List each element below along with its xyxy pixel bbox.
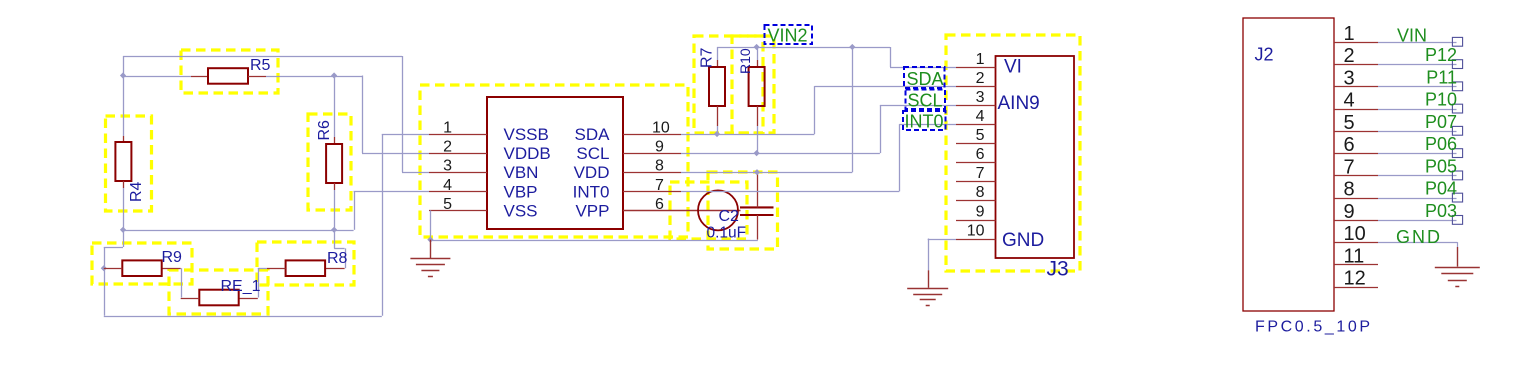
connector J2 body <box>1243 18 1334 311</box>
J2 pin 6 wire <box>1378 153 1457 155</box>
wire W1 into IC pin 3 <box>402 172 429 174</box>
wire W2 right segment <box>266 76 362 78</box>
J2 pin 3 port square <box>1452 82 1462 91</box>
svg-text:VSSB: VSSB <box>504 125 549 144</box>
J2 pin 10 stub <box>1334 242 1378 244</box>
resistor R4 top lead <box>123 136 125 142</box>
svg-text:0.1uF: 0.1uF <box>707 225 747 242</box>
J2 pin 5 stub <box>1334 131 1378 133</box>
junction R10 / SCL <box>753 150 759 156</box>
J3 pin 10 stub <box>956 239 996 241</box>
svg-text:R5: R5 <box>250 57 271 74</box>
svg-text:10: 10 <box>967 222 985 239</box>
resistor R10 top lead <box>757 60 759 67</box>
net label SCL box <box>906 90 946 110</box>
svg-text:6: 6 <box>1344 134 1355 156</box>
svg-text:SCL: SCL <box>908 91 943 111</box>
wire INT0 from IC pin 7 <box>681 191 899 193</box>
wire J2 ground drop <box>1457 242 1459 247</box>
capacitor C2 bottom plate <box>740 214 774 216</box>
junction R4 / W2 <box>120 72 126 78</box>
junction ground rail <box>427 236 433 242</box>
J2 pin 1 port square <box>1452 37 1462 46</box>
svg-text:P05: P05 <box>1425 156 1457 176</box>
wire R8-left stub <box>258 268 267 270</box>
wire ground rail to C2 <box>430 240 757 242</box>
net label VIN2 box <box>765 25 813 44</box>
svg-text:R10: R10 <box>737 48 753 74</box>
room box around J3 <box>946 35 1080 271</box>
junction R6 / H230 <box>331 227 337 233</box>
IC pin 9 stub <box>623 153 681 155</box>
wire VDD from IC pin 8 <box>681 172 852 174</box>
wire R6 bottom vertical <box>334 190 336 248</box>
room box around C2 circle <box>670 182 747 239</box>
svg-text:9: 9 <box>1344 201 1355 223</box>
IC pin 6 stub (through C2 circle) <box>623 210 741 212</box>
svg-text:R4: R4 <box>128 181 145 202</box>
svg-text:P06: P06 <box>1425 134 1457 154</box>
svg-text:GND: GND <box>1396 227 1442 247</box>
wire left vertical down to bottom rail <box>104 247 106 316</box>
capacitor C2 top lead <box>757 172 759 207</box>
J2 pin 1 wire <box>1378 42 1457 44</box>
svg-text:2: 2 <box>1344 45 1355 67</box>
resistor R9 right lead <box>162 268 181 270</box>
IC pin 10 stub <box>623 134 681 136</box>
wire W2 vertical down to pin2 row <box>362 76 364 154</box>
wire R6-R8 jog vertical <box>345 248 347 268</box>
wire VIN2 into J3 pin 1 <box>890 67 956 69</box>
wire net W2 (VDDB) left segment <box>123 76 191 78</box>
svg-text:P04: P04 <box>1425 179 1457 199</box>
resistor R5 right lead <box>248 76 266 78</box>
svg-text:SDA: SDA <box>575 125 611 144</box>
J2 pin 1 stub <box>1334 42 1378 44</box>
svg-text:5: 5 <box>443 196 452 213</box>
wire SDA riser <box>814 86 816 134</box>
IC pin 7 stub <box>623 191 681 193</box>
svg-text:2: 2 <box>443 139 452 156</box>
svg-text:9: 9 <box>655 139 664 156</box>
resistor R6 body <box>326 144 342 183</box>
resistor RE_1 right lead <box>239 298 258 300</box>
svg-text:1: 1 <box>976 51 985 68</box>
svg-text:1: 1 <box>443 120 452 137</box>
svg-text:VBP: VBP <box>504 182 538 201</box>
room box around R9 <box>92 243 192 284</box>
room box around R7 <box>694 36 763 133</box>
svg-text:1: 1 <box>1344 23 1355 45</box>
wire R9 to RE_1 vertical <box>181 268 183 297</box>
resistor R4 bottom lead <box>123 181 125 188</box>
J2 pin 3 stub <box>1334 86 1378 88</box>
svg-text:7: 7 <box>655 177 664 194</box>
ground symbol at J2 <box>1457 247 1459 267</box>
room box around IC <box>420 85 688 237</box>
resistor R5 left lead <box>191 76 208 78</box>
J2 pin 12 stub <box>1334 287 1378 289</box>
J3 pin 2 stub <box>956 86 996 88</box>
wire VBP vertical <box>354 191 356 230</box>
room box around R10 <box>732 36 774 133</box>
wire VBP into IC pin 4 <box>354 191 429 193</box>
wire R6-R8 jog horizontal <box>334 248 345 250</box>
svg-text:8: 8 <box>655 158 664 175</box>
ground symbol at IC <box>430 240 432 259</box>
wire J3 pin 10 to ground <box>928 239 956 241</box>
svg-text:R9: R9 <box>162 249 183 266</box>
svg-text:P10: P10 <box>1425 90 1457 110</box>
svg-text:VBN: VBN <box>504 163 539 182</box>
svg-text:4: 4 <box>443 177 452 194</box>
wire R10 top <box>757 47 759 60</box>
svg-text:R7: R7 <box>699 47 716 68</box>
wire VSSB long vertical <box>382 134 384 316</box>
resistor R7 top lead <box>717 60 719 67</box>
wire R7 bottom <box>717 126 719 134</box>
J2 pin 4 port square <box>1452 104 1462 113</box>
svg-text:SCL: SCL <box>576 144 609 163</box>
IC pin 5 stub <box>429 210 487 212</box>
wire VSSB into IC pin 1 <box>382 134 429 136</box>
J3 pin 6 stub <box>956 162 996 164</box>
wire J3 ground drop <box>928 239 930 271</box>
J2 pin 5 port square <box>1452 126 1462 135</box>
J3 pin 4 stub <box>956 124 996 126</box>
capacitor C2 top plate <box>740 206 774 208</box>
svg-text:3: 3 <box>443 158 452 175</box>
svg-text:VPP: VPP <box>575 201 609 220</box>
svg-text:5: 5 <box>976 127 985 144</box>
svg-text:6: 6 <box>655 196 664 213</box>
wire R4 top vertical <box>123 56 125 136</box>
wire INT0 to J3 pin 4 <box>899 124 956 126</box>
svg-text:VDDB: VDDB <box>504 144 551 163</box>
resistor R10 bottom lead <box>757 106 759 126</box>
wire VDD riser to VIN2 <box>852 47 854 172</box>
IC pin 1 stub <box>429 134 487 136</box>
wire net W1 R4-top to pin3 horizontal <box>123 56 402 58</box>
J2 pin 9 wire <box>1378 220 1457 222</box>
wire SCL riser <box>880 105 882 153</box>
J2 pin 8 wire <box>1378 198 1457 200</box>
net label INT0 box <box>903 111 946 130</box>
room box around RE_1 <box>169 270 268 314</box>
J2 pin 10 wire <box>1378 242 1457 244</box>
svg-text:8: 8 <box>976 184 985 201</box>
junction R7 / SDA <box>714 131 720 137</box>
svg-text:10: 10 <box>652 120 670 137</box>
room box around R6 <box>308 114 351 210</box>
J2 pin 7 wire <box>1378 175 1457 177</box>
svg-text:9: 9 <box>976 203 985 220</box>
svg-text:3: 3 <box>1344 67 1355 89</box>
resistor R8 right lead <box>325 268 345 270</box>
J2 pin 9 stub <box>1334 220 1378 222</box>
wire R7 top <box>717 47 719 60</box>
resistor R7 bottom lead <box>717 106 719 126</box>
resistor R9 body <box>122 260 161 276</box>
room box around C2 plates <box>708 172 778 249</box>
wire INT0 riser <box>899 124 901 191</box>
IC pin 3 stub <box>429 172 487 174</box>
J2 pin 11 stub <box>1334 264 1378 266</box>
svg-text:SDA: SDA <box>907 69 944 89</box>
svg-text:INT0: INT0 <box>905 112 944 132</box>
J3 pin 5 stub <box>956 143 996 145</box>
svg-text:P07: P07 <box>1425 112 1457 132</box>
IC pin 8 stub <box>623 172 681 174</box>
svg-text:7: 7 <box>1344 156 1355 178</box>
svg-text:5: 5 <box>1344 112 1355 134</box>
wire R8 to RE_1 vertical <box>258 268 260 297</box>
J2 pin 6 port square <box>1452 149 1462 158</box>
J2 pin 7 port square <box>1452 171 1462 180</box>
room box around R5 <box>181 50 278 93</box>
J2 pin 4 wire <box>1378 109 1457 111</box>
J3 pin 9 stub <box>956 220 996 222</box>
J2 pin 8 stub <box>1334 198 1378 200</box>
svg-text:P12: P12 <box>1425 45 1457 65</box>
J2 pin 2 port square <box>1452 60 1462 69</box>
svg-text:P03: P03 <box>1425 201 1457 221</box>
wire SDA to J3 pin 2 <box>814 86 956 88</box>
junction R10 top / VIN2 <box>753 44 759 50</box>
svg-text:4: 4 <box>1344 90 1355 112</box>
svg-text:10: 10 <box>1344 223 1366 245</box>
J2 pin 7 stub <box>1334 175 1378 177</box>
svg-text:FPC0.5_10P: FPC0.5_10P <box>1255 319 1373 336</box>
svg-text:2: 2 <box>976 70 985 87</box>
resistor R6 top lead <box>334 137 336 144</box>
resistor RE_1 left lead <box>181 298 200 300</box>
wire W1 vertical down to pin3 row <box>402 56 404 172</box>
resistor R7 body <box>709 67 725 106</box>
J2 pin 4 stub <box>1334 109 1378 111</box>
J2 pin 9 port square <box>1452 216 1462 225</box>
J2 pin 5 wire <box>1378 131 1457 133</box>
svg-text:C2: C2 <box>719 208 740 225</box>
svg-text:AIN9: AIN9 <box>998 93 1040 114</box>
junction R9 left <box>101 265 107 271</box>
room box around R4 <box>106 116 152 211</box>
wire R6 top vertical <box>334 76 336 138</box>
svg-text:4: 4 <box>976 108 985 125</box>
svg-text:8: 8 <box>1344 179 1355 201</box>
svg-text:7: 7 <box>976 165 985 182</box>
J2 pin 2 wire <box>1378 64 1457 66</box>
J2 pin 6 stub <box>1334 153 1378 155</box>
svg-text:VDD: VDD <box>574 163 610 182</box>
wire SDA from IC pin 10 <box>681 134 814 136</box>
wire SCL from IC pin 9 <box>681 153 880 155</box>
wire VIN2 drop to J3 pin 1 <box>890 47 892 67</box>
wire H230 (VBP rail) <box>123 230 354 232</box>
J2 pin 3 wire <box>1378 86 1457 88</box>
svg-text:J3: J3 <box>1047 258 1069 281</box>
IC body <box>487 97 623 229</box>
resistor R10 body <box>749 67 765 106</box>
resistor R4 body <box>115 142 131 181</box>
svg-text:6: 6 <box>976 146 985 163</box>
J3 pin 8 stub <box>956 200 996 202</box>
wire R10 bottom <box>757 126 759 153</box>
ground symbol at J3 <box>928 270 930 288</box>
net label SDA box <box>904 67 945 88</box>
svg-text:RE_1: RE_1 <box>221 278 261 295</box>
junction R6 / W2 <box>331 72 337 78</box>
wire R4 bottom vertical <box>123 188 125 247</box>
svg-text:VIN: VIN <box>1397 25 1427 45</box>
J2 pin 2 stub <box>1334 64 1378 66</box>
connector J3 body <box>996 56 1075 258</box>
svg-text:VIN2: VIN2 <box>768 26 808 46</box>
room box around R8 <box>257 242 354 285</box>
junction VDD riser / VIN2 <box>849 44 855 50</box>
svg-text:INT0: INT0 <box>573 182 610 201</box>
capacitor C2 bottom lead <box>757 215 759 240</box>
resistor R5 body <box>208 68 248 84</box>
junction C2 / VDD <box>754 169 760 175</box>
J2 pin 8 port square <box>1452 193 1462 202</box>
J3 pin 3 stub <box>956 105 996 107</box>
junction R4 / H230 <box>120 227 126 233</box>
svg-text:VSS: VSS <box>504 201 538 220</box>
svg-text:11: 11 <box>1344 245 1365 267</box>
J3 pin 7 stub <box>956 181 996 183</box>
capacitor C2 variant circle <box>698 190 738 230</box>
resistor R6 bottom lead <box>334 183 336 190</box>
IC pin 2 stub <box>429 153 487 155</box>
IC pin 4 stub <box>429 191 487 193</box>
svg-text:P11: P11 <box>1426 67 1457 87</box>
wire bottom rail (VSSB) <box>104 316 382 318</box>
svg-text:J2: J2 <box>1255 45 1274 65</box>
wire VSS down <box>430 210 432 239</box>
wire W2 into IC pin 2 <box>362 153 429 155</box>
J3 pin 1 stub <box>956 67 996 69</box>
svg-text:3: 3 <box>976 89 985 106</box>
wire net VIN2 horizontal <box>717 47 890 49</box>
resistor R9 left lead <box>104 268 123 270</box>
wire jog left <box>104 247 123 249</box>
svg-text:VI: VI <box>1004 57 1022 78</box>
svg-text:GND: GND <box>1002 230 1044 251</box>
resistor R8 body <box>286 260 326 276</box>
svg-text:12: 12 <box>1344 268 1366 290</box>
wire SCL to J3 pin 3 <box>880 105 956 107</box>
resistor R8 left lead <box>267 268 286 270</box>
resistor RE_1 body <box>199 290 238 306</box>
svg-text:R8: R8 <box>327 250 348 267</box>
svg-text:R6: R6 <box>316 120 333 141</box>
